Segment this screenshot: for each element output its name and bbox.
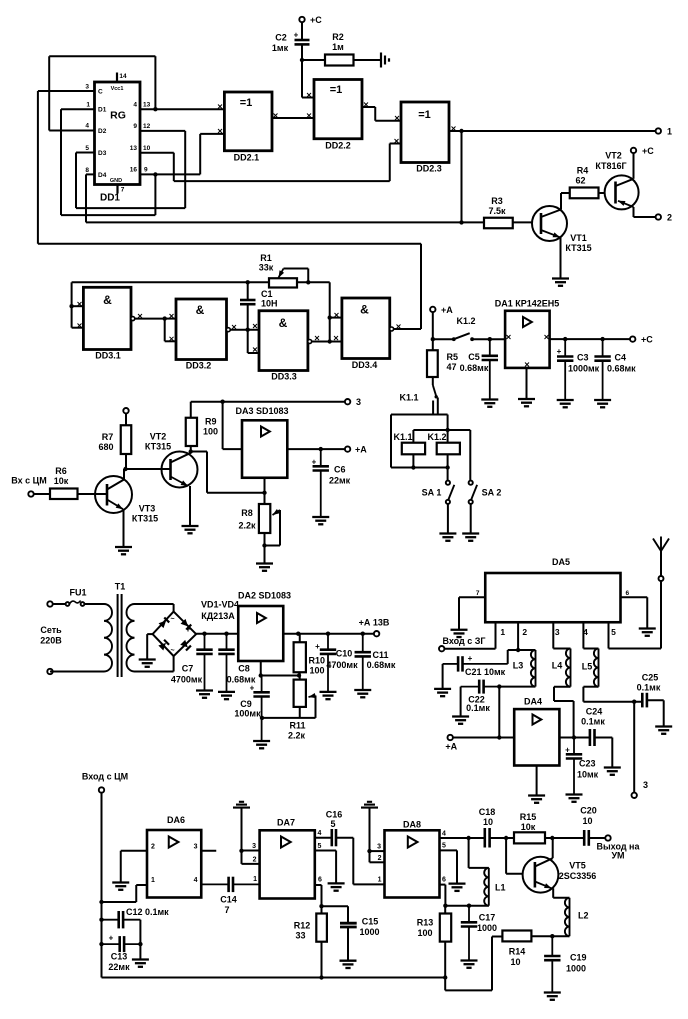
svg-text:DD3.1: DD3.1 (95, 351, 121, 361)
svg-text:1000: 1000 (359, 927, 379, 937)
svg-text:R1: R1 (260, 253, 272, 263)
svg-text:8: 8 (85, 167, 89, 174)
svg-text:R3: R3 (491, 196, 503, 206)
svg-text:5: 5 (318, 843, 322, 850)
svg-text:+: + (185, 624, 190, 634)
svg-text:10к: 10к (521, 822, 536, 832)
svg-text:УМ: УМ (611, 851, 624, 861)
svg-text:10: 10 (143, 145, 151, 152)
svg-text:4: 4 (85, 123, 89, 130)
svg-text:100: 100 (310, 666, 325, 676)
svg-text:+А: +А (355, 445, 367, 455)
svg-text:10: 10 (582, 816, 592, 826)
svg-text:2: 2 (253, 857, 257, 864)
svg-text:6: 6 (318, 877, 322, 884)
svg-text:100: 100 (417, 928, 432, 938)
svg-text:1000: 1000 (566, 964, 586, 974)
svg-text:2: 2 (667, 213, 672, 223)
svg-text:12: 12 (143, 123, 151, 130)
svg-text:0.1мк: 0.1мк (637, 683, 661, 693)
svg-text:33: 33 (295, 931, 305, 941)
svg-text:DA6: DA6 (167, 815, 185, 825)
svg-text:1: 1 (500, 627, 505, 637)
svg-text:4: 4 (318, 830, 322, 837)
svg-text:КТ315: КТ315 (132, 514, 158, 524)
svg-text:1: 1 (378, 877, 382, 884)
svg-text:T1: T1 (115, 582, 126, 592)
svg-text:&: & (196, 303, 205, 317)
svg-text:220В: 220В (40, 636, 62, 646)
svg-text:5: 5 (85, 145, 89, 152)
svg-text:7: 7 (476, 590, 480, 597)
svg-text:1мк: 1мк (272, 43, 289, 53)
svg-text:+C: +C (642, 146, 654, 156)
svg-text:100: 100 (203, 427, 218, 437)
svg-text:10Н: 10Н (261, 299, 278, 309)
svg-text:&: & (103, 293, 112, 307)
svg-text:C4: C4 (615, 353, 627, 363)
svg-text:КТ315: КТ315 (145, 442, 171, 452)
svg-text:+А: +А (445, 742, 457, 752)
svg-text:~: ~ (170, 616, 174, 623)
svg-text:C19: C19 (570, 953, 587, 963)
svg-text:7.5к: 7.5к (488, 206, 506, 216)
svg-text:62: 62 (575, 176, 585, 186)
svg-text:DD2.1: DD2.1 (234, 153, 260, 163)
svg-text:+: + (468, 654, 473, 663)
svg-text:DA3 SD1083: DA3 SD1083 (235, 406, 288, 416)
svg-text:R14: R14 (509, 947, 526, 957)
svg-text:C6: C6 (334, 465, 346, 475)
svg-text:Vcc1: Vcc1 (111, 86, 124, 92)
svg-text:C8: C8 (238, 664, 250, 674)
svg-text:+: + (565, 746, 570, 755)
svg-text:C1: C1 (261, 289, 273, 299)
svg-text:3: 3 (356, 397, 361, 407)
svg-text:2.2к: 2.2к (238, 521, 256, 531)
svg-text:K1.1: K1.1 (393, 432, 412, 442)
svg-text:+А: +А (441, 305, 453, 315)
svg-text:14: 14 (119, 73, 127, 80)
svg-text:5: 5 (611, 627, 616, 637)
svg-text:0.68мк: 0.68мк (367, 660, 396, 670)
svg-text:DD3.3: DD3.3 (271, 372, 297, 382)
svg-text:L4: L4 (552, 661, 563, 671)
svg-text:10: 10 (510, 957, 520, 967)
svg-text:1: 1 (151, 877, 155, 884)
svg-text:13: 13 (130, 145, 138, 152)
svg-text:22мк: 22мк (108, 962, 130, 972)
svg-text:1м: 1м (332, 42, 344, 52)
svg-text:C14: C14 (220, 895, 237, 905)
svg-text:3: 3 (377, 844, 381, 851)
svg-text:DD2.3: DD2.3 (416, 164, 442, 174)
svg-text:КТ816Г: КТ816Г (595, 161, 626, 171)
svg-text:R9: R9 (205, 417, 217, 427)
svg-text:3: 3 (643, 780, 648, 790)
svg-text:+: + (315, 642, 320, 651)
svg-text:L2: L2 (578, 911, 589, 921)
svg-text:C15: C15 (362, 917, 379, 927)
svg-text:L1: L1 (495, 883, 506, 893)
svg-text:13: 13 (143, 102, 151, 109)
svg-text:&: & (279, 316, 288, 330)
svg-text:R13: R13 (417, 918, 434, 928)
svg-text:D2: D2 (98, 128, 107, 135)
svg-text:7: 7 (224, 905, 229, 915)
svg-text:0.1мк: 0.1мк (581, 717, 605, 727)
svg-text:DA5: DA5 (552, 557, 570, 567)
svg-text:C17: C17 (479, 913, 496, 923)
svg-text:~: ~ (170, 648, 174, 655)
svg-text:+А 13В: +А 13В (359, 618, 390, 628)
svg-text:Сеть: Сеть (40, 625, 62, 635)
svg-text:C: C (98, 89, 103, 96)
svg-text:&: & (360, 303, 369, 317)
svg-text:5: 5 (330, 819, 335, 829)
svg-text:C25: C25 (642, 673, 659, 683)
svg-text:RG: RG (110, 110, 126, 122)
svg-text:1000мк: 1000мк (568, 364, 600, 374)
svg-text:SA 1: SA 1 (422, 488, 442, 498)
svg-text:0.68мк: 0.68мк (460, 363, 489, 373)
svg-text:КТ315: КТ315 (565, 243, 591, 253)
svg-text:33к: 33к (259, 263, 274, 273)
svg-text:3: 3 (194, 844, 198, 851)
svg-text:47: 47 (447, 362, 457, 372)
svg-text:R4: R4 (577, 166, 589, 176)
svg-text:2SC3356: 2SC3356 (559, 871, 597, 881)
svg-text:+: + (109, 934, 114, 943)
svg-text:2: 2 (151, 844, 155, 851)
svg-text:DD3.4: DD3.4 (352, 360, 378, 370)
svg-text:DA1 КР142ЕН5: DA1 КР142ЕН5 (495, 299, 560, 309)
svg-text:+C: +C (310, 15, 322, 25)
svg-text:VT5: VT5 (569, 861, 586, 871)
svg-text:2: 2 (522, 627, 527, 637)
svg-text:DD1: DD1 (100, 193, 120, 204)
svg-text:16: 16 (130, 167, 138, 174)
svg-text:R8: R8 (241, 508, 253, 518)
svg-text:680: 680 (98, 442, 113, 452)
svg-text:VT2: VT2 (605, 151, 622, 161)
svg-text:=1: =1 (240, 97, 253, 109)
svg-text:2: 2 (378, 855, 382, 862)
svg-text:DD3.2: DD3.2 (186, 361, 212, 371)
svg-text:R6: R6 (55, 466, 67, 476)
svg-text:R2: R2 (332, 32, 344, 42)
svg-text:D1: D1 (98, 107, 107, 114)
svg-text:VT2: VT2 (150, 432, 167, 442)
svg-text:C7: C7 (182, 664, 194, 674)
svg-text:2.2к: 2.2к (288, 731, 306, 741)
svg-text:4700мк: 4700мк (171, 675, 203, 685)
svg-text:1: 1 (86, 102, 90, 109)
svg-text:DA2 SD1083: DA2 SD1083 (238, 591, 291, 601)
svg-text:4700мк: 4700мк (326, 660, 358, 670)
svg-text:R12: R12 (294, 921, 311, 931)
svg-text:1: 1 (667, 127, 672, 137)
svg-text:+: + (312, 458, 317, 467)
svg-text:3: 3 (85, 84, 89, 91)
svg-text:9: 9 (144, 167, 148, 174)
svg-text:10мк: 10мк (577, 770, 599, 780)
svg-text:Вход с ЦМ: Вход с ЦМ (82, 772, 128, 782)
svg-text:C23: C23 (579, 759, 596, 769)
svg-text:R5: R5 (447, 352, 459, 362)
svg-text:КД213А: КД213А (201, 611, 235, 621)
svg-text:D4: D4 (98, 172, 107, 179)
svg-text:1: 1 (253, 876, 257, 883)
svg-text:GND: GND (110, 178, 122, 184)
svg-text:3: 3 (555, 627, 560, 637)
svg-text:3: 3 (252, 843, 256, 850)
svg-text:VD1-VD4: VD1-VD4 (201, 600, 239, 610)
svg-text:C11: C11 (372, 650, 388, 660)
svg-text:C24: C24 (586, 707, 603, 717)
svg-text:5: 5 (442, 843, 446, 850)
svg-text:C13: C13 (111, 952, 128, 962)
svg-text:L5: L5 (582, 662, 593, 672)
svg-text:+С: +С (641, 335, 653, 345)
svg-text:C5: C5 (468, 352, 480, 362)
svg-text:0.1мк: 0.1мк (466, 703, 490, 713)
svg-text:K1.2: K1.2 (456, 316, 475, 326)
svg-text:=1: =1 (418, 109, 431, 121)
svg-text:C12 0.1мк: C12 0.1мк (126, 907, 169, 917)
svg-text:10к: 10к (54, 476, 69, 486)
svg-text:6: 6 (442, 877, 446, 884)
svg-text:DA7: DA7 (277, 818, 295, 828)
svg-text:1000: 1000 (477, 923, 497, 933)
svg-text:DD2.2: DD2.2 (325, 141, 351, 151)
svg-text:C10: C10 (336, 649, 353, 659)
svg-text:9: 9 (133, 123, 137, 130)
svg-text:DA8: DA8 (403, 820, 421, 830)
svg-text:22мк: 22мк (329, 476, 351, 486)
svg-text:0.68мк: 0.68мк (607, 364, 636, 374)
svg-text:4: 4 (442, 831, 446, 838)
svg-text:DA4: DA4 (524, 697, 542, 707)
svg-text:4: 4 (133, 102, 137, 109)
svg-text:FU1: FU1 (69, 588, 86, 598)
svg-text:7: 7 (121, 187, 125, 194)
svg-text:R7: R7 (102, 432, 114, 442)
svg-text:100мк: 100мк (234, 709, 261, 719)
svg-text:C21 10мк: C21 10мк (465, 667, 506, 677)
svg-text:K1.2: K1.2 (427, 432, 446, 442)
svg-text:VT3: VT3 (139, 504, 156, 514)
svg-text:Вход с ЗГ: Вход с ЗГ (442, 636, 485, 646)
svg-text:C16: C16 (326, 810, 343, 820)
svg-text:K1.1: K1.1 (399, 393, 418, 403)
svg-text:+: + (557, 347, 562, 356)
svg-text:=1: =1 (330, 84, 343, 96)
svg-text:R10: R10 (309, 656, 326, 666)
svg-text:L3: L3 (513, 661, 524, 671)
svg-text:C18: C18 (479, 807, 496, 817)
svg-text:C3: C3 (577, 353, 589, 363)
svg-text:R15: R15 (520, 812, 537, 822)
svg-text:+: + (294, 31, 299, 40)
svg-text:D3: D3 (98, 150, 107, 157)
svg-text:6: 6 (626, 590, 630, 597)
svg-text:10: 10 (483, 817, 493, 827)
svg-text:SA 2: SA 2 (482, 488, 502, 498)
svg-text:C20: C20 (580, 806, 597, 816)
svg-text:R11: R11 (289, 721, 305, 731)
svg-text:C2: C2 (275, 33, 287, 43)
svg-text:4: 4 (194, 877, 198, 884)
svg-text:+: + (250, 684, 255, 693)
svg-text:VT1: VT1 (570, 233, 587, 243)
svg-text:C9: C9 (240, 699, 252, 709)
svg-text:Вх с ЦМ: Вх с ЦМ (11, 476, 46, 486)
